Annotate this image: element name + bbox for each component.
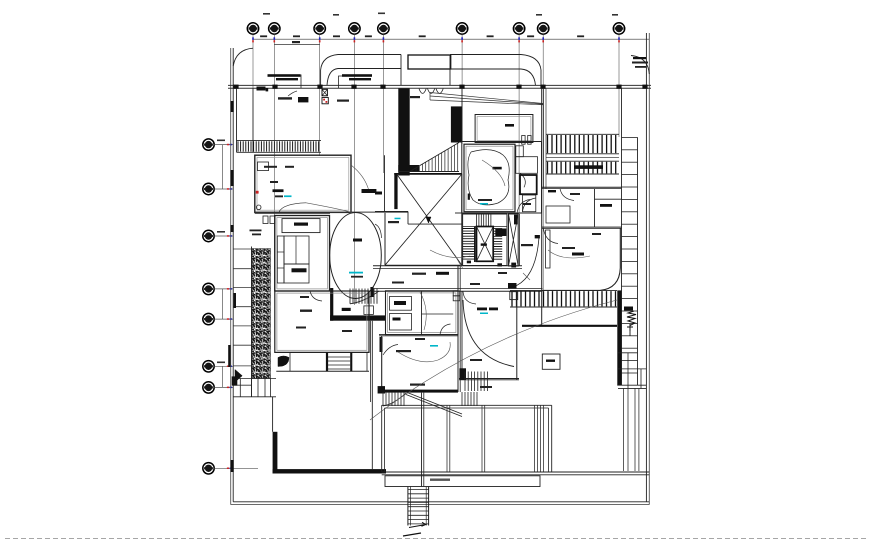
left boundary dark seg 1 — [231, 101, 234, 112]
grid line x=253.0 — [252, 34, 254, 152]
grid leader y=468.3 — [214, 467, 258, 469]
door arc bath — [560, 189, 574, 201]
tiny texts near left bubbles — [217, 140, 225, 142]
heater leader line — [300, 75, 302, 89]
grid bubble top 2 — [314, 23, 325, 34]
black dash wall — [370, 287, 373, 297]
stair rail curve — [350, 291, 379, 304]
dining room curved wall — [330, 213, 382, 299]
grid line x=274.3 — [273, 34, 275, 291]
bath top wall — [542, 186, 622, 188]
wire utility — [420, 292, 426, 330]
bath blob 2 — [600, 204, 612, 207]
label left of kitchen — [250, 230, 262, 232]
tall shaft box — [509, 214, 519, 266]
heater leader line 2 — [339, 76, 343, 88]
hall wall under living — [255, 211, 408, 213]
wall x=543 — [542, 88, 544, 188]
thick L-wall horizontal — [273, 469, 386, 473]
site boundary left outer — [230, 48, 232, 505]
stair ticks bed3 side — [465, 372, 487, 392]
bed3 bottom wall — [459, 378, 519, 380]
wall between blocks — [457, 266, 459, 392]
dimension text labels top — [260, 35, 267, 37]
stair arrow at section line — [403, 533, 421, 536]
storage inner wall line — [477, 117, 531, 141]
ramp direction lines — [430, 93, 543, 105]
site boundary right outer — [648, 33, 650, 505]
wire to stair — [455, 255, 463, 268]
big door arc corridor — [513, 237, 539, 287]
grid line x=619.0 — [618, 34, 620, 137]
label RA/WP-4 right — [410, 96, 420, 98]
wall x=542 — [541, 88, 543, 326]
bench band — [276, 351, 369, 353]
patio wall right inner — [369, 321, 371, 402]
bed2 top wall — [542, 226, 622, 228]
grid bubble top 6 — [613, 23, 624, 34]
tall shaft X — [509, 214, 519, 266]
bed2 label blob — [572, 253, 584, 256]
grid bubble top 1B — [269, 23, 280, 34]
corner arc top-right — [631, 56, 649, 75]
squiggle leader with blobs — [624, 307, 633, 311]
grid line x=354.4 — [353, 34, 355, 305]
great room walls — [275, 291, 369, 352]
thick L-wall vertical — [273, 432, 278, 474]
bath fixture box — [546, 206, 570, 223]
bed2 label — [562, 247, 575, 249]
corridor wall lower — [373, 288, 543, 290]
grid leader y=236.0 — [214, 235, 233, 237]
cyan label skylight — [395, 218, 401, 220]
patio wall right — [371, 321, 373, 469]
shaft dark top — [514, 215, 518, 225]
wall under utility — [379, 334, 458, 336]
skylight bottom edge — [385, 264, 462, 266]
grid line x=383.4 — [382, 34, 384, 173]
door arc hall left — [375, 224, 382, 238]
kitchen inner wall line — [277, 218, 328, 289]
box grid below stipple — [233, 378, 276, 380]
bath blob 1 — [548, 190, 556, 192]
label SD/SF-9 — [521, 244, 533, 246]
door jambs kitchen top — [263, 216, 268, 224]
grid bubble left AH — [203, 463, 214, 474]
grid line x=519.1 — [518, 34, 520, 214]
thick black wall cap — [398, 165, 419, 172]
site boundary right inner — [645, 33, 647, 502]
red device box — [322, 98, 328, 104]
band label — [430, 479, 450, 481]
tiny texts near top bubbles — [263, 13, 270, 15]
lower room label 2 — [410, 384, 425, 386]
utility blob B — [393, 318, 401, 321]
label SA/WP — [388, 221, 399, 223]
ladder band right edge — [637, 137, 639, 385]
bed1 wire loop — [468, 150, 509, 205]
storage label blob — [505, 124, 514, 127]
wire corner — [523, 273, 530, 280]
grid leader y=189.0 — [214, 188, 233, 190]
corridor wall upper — [373, 265, 522, 267]
black dashes hall — [362, 189, 377, 193]
mullion band right row1 — [546, 133, 619, 135]
grid bubble left AD — [203, 283, 214, 294]
grid line x=319.7 — [319, 34, 321, 156]
right side double verticals to deck — [623, 388, 625, 471]
dining cyan label — [349, 272, 363, 274]
utility blob A — [394, 301, 406, 305]
ladder band rungs — [622, 136, 638, 138]
skylight right edge — [461, 174, 463, 265]
shaft dark bottom — [511, 263, 516, 268]
kitchen stove blob — [292, 268, 307, 272]
utility room B — [390, 314, 412, 331]
bath label — [570, 193, 580, 195]
bed3 blob 2 — [489, 308, 498, 311]
planting strip rungs — [233, 248, 251, 250]
stair treads (curved stair) — [350, 289, 377, 304]
balcony mullion band — [510, 289, 617, 291]
living label 3 — [270, 181, 278, 183]
left dim connector lines — [222, 289, 224, 319]
heater note text top-left — [268, 74, 301, 77]
grid bubble top 5 — [538, 23, 549, 34]
grid bubble left AF — [203, 361, 214, 372]
grid leader y=387.4 — [214, 386, 233, 388]
bed3 corner box — [510, 292, 518, 300]
corridor label — [412, 273, 426, 275]
bed3 curved wall — [463, 300, 514, 367]
utility sq2 — [453, 296, 460, 301]
dining label blob — [353, 239, 362, 242]
dark bar in row2 — [574, 165, 603, 169]
mid line between rows — [546, 157, 619, 159]
ladder band left edge — [621, 88, 623, 385]
bed3 label — [470, 359, 482, 361]
kitchen counter blob — [294, 223, 308, 226]
bed1 label — [478, 199, 492, 201]
grid leader y=319.1 — [214, 318, 233, 320]
site boundary left inner — [232, 48, 234, 502]
wire bed1 — [482, 160, 505, 186]
planter blob — [546, 360, 555, 362]
door arc great room — [310, 291, 322, 301]
black dash near arc — [535, 235, 540, 238]
skylight lower-left edge — [384, 213, 386, 265]
deck stair ticks right — [462, 392, 477, 406]
grid leader y=366.3 — [214, 365, 233, 367]
top dimension line — [253, 38, 649, 40]
door arc bed3 — [463, 292, 476, 305]
site boundary bottom outer — [231, 504, 650, 506]
planter box right — [542, 354, 560, 369]
label RA/WP-4 left — [278, 97, 292, 99]
grid bubble top 4A — [513, 23, 524, 34]
left boundary dark seg 2 — [231, 170, 234, 186]
window marker box with X — [322, 89, 327, 96]
deck bottom band — [382, 471, 650, 473]
canopy band B — [450, 54, 521, 56]
lower band rect — [385, 476, 540, 487]
stair room thick walls — [330, 288, 333, 321]
elevator blob — [481, 243, 487, 245]
equipment black box — [298, 97, 308, 102]
stair rail dark — [474, 227, 476, 263]
stair dark mark bottom — [497, 263, 502, 266]
living cyan label — [284, 195, 292, 197]
label BA/WP left — [337, 100, 349, 102]
top-right corner label — [633, 57, 646, 59]
wall black segment B — [228, 345, 230, 367]
bench mid stair treads — [326, 352, 328, 371]
hall wall under living 2 — [255, 213, 330, 215]
deck outer rect — [382, 404, 552, 406]
grid bubble top 2A — [349, 23, 360, 34]
bed1 label blob — [493, 167, 502, 170]
black corner lower room — [378, 386, 385, 393]
wire curve right of living — [351, 165, 369, 191]
bath thick partition — [520, 175, 537, 194]
garage ramp hatch — [398, 171, 459, 173]
black dash wall 2 — [380, 337, 383, 352]
right side boxes — [618, 352, 638, 354]
wire corridor — [430, 250, 470, 258]
wire living-dining — [306, 203, 352, 213]
wall black segment A — [234, 293, 236, 308]
wire curve lower room — [398, 342, 450, 362]
deck crossing wall x=421.5 — [421, 393, 423, 487]
wall x=462 — [461, 88, 463, 141]
bed3 right wall — [516, 292, 518, 380]
stair dark mark left — [467, 261, 471, 264]
window band top-left (mullions) — [237, 140, 322, 142]
grid bubble top 1A — [247, 23, 258, 34]
lower room bottom thick wall — [379, 390, 458, 393]
door arc bed2 — [543, 228, 558, 243]
bed1 cyan label — [480, 203, 488, 205]
utility shelf — [422, 313, 454, 315]
stair dark mark top — [495, 229, 506, 237]
living door symbol circle — [256, 205, 261, 210]
stair top landing ticks — [477, 215, 491, 227]
bed3 blob 1 — [477, 308, 487, 311]
stipple hatch band — [252, 249, 271, 379]
top sub-dimension line — [274, 44, 319, 46]
deck stair rail left — [383, 393, 406, 406]
black post bottom-left — [232, 376, 238, 385]
main top wall inner — [228, 87, 651, 89]
grid bubble left AB — [203, 183, 214, 194]
living label 2 — [285, 166, 294, 168]
kitchen lower cab — [284, 264, 309, 283]
deck dividers — [446, 405, 448, 472]
bed1 bath column — [516, 146, 524, 157]
grid line x=543.2 — [542, 34, 544, 291]
great room label — [300, 310, 312, 312]
door arc lower room — [383, 345, 398, 356]
storage room walls — [475, 115, 533, 143]
door arc utility — [440, 324, 451, 335]
elevator shaft box — [477, 227, 494, 262]
center mark triangle — [426, 217, 431, 223]
grid bubble top 3 — [378, 23, 389, 34]
bed1 inner wall line — [466, 146, 513, 210]
black mark bed1 wall — [468, 194, 470, 200]
bed1 enclosure — [462, 142, 542, 214]
thick black wall bar East — [451, 106, 462, 142]
line right of bar — [617, 384, 646, 386]
grid bubble left AG — [203, 382, 214, 393]
living room inner wall line — [257, 157, 349, 210]
black blob corridor end — [508, 283, 517, 289]
section line bottom — [5, 537, 866, 539]
skylight left thick wall — [394, 173, 397, 209]
utility block walls — [386, 291, 459, 335]
main top wall outer — [228, 84, 651, 86]
corner arc top-left — [233, 48, 253, 66]
wire sweep big — [370, 300, 617, 420]
bed3 cyan label — [480, 313, 488, 315]
corridor blob — [436, 272, 449, 275]
great room inner wall line — [277, 293, 367, 350]
skylight top edge — [394, 173, 462, 175]
hall wall — [455, 212, 541, 214]
wall garage left — [236, 88, 238, 152]
heater note text 2 — [342, 74, 372, 77]
grid leader y=144.6 — [214, 144, 233, 146]
mullion band right row2 — [546, 160, 619, 162]
kitchen walls — [275, 216, 330, 292]
grid bubble left AE — [203, 313, 214, 324]
bed2 wardrobe strip — [546, 230, 551, 268]
wall x=384.5 upper — [384, 155, 386, 211]
stair core box — [463, 214, 507, 266]
canopy middle box — [408, 55, 451, 69]
grid leader y=288.9 — [214, 288, 233, 290]
wire curve living — [279, 203, 306, 212]
door arc hall — [517, 200, 530, 214]
utility inner wall line — [388, 293, 456, 333]
utility sq1 — [453, 291, 460, 296]
canopy band A — [338, 54, 401, 56]
bed2 curved wall — [542, 228, 620, 290]
wire bed2 — [548, 250, 590, 258]
bath partition h — [595, 198, 622, 200]
wall right of shaft — [519, 214, 521, 266]
wall garage mid — [252, 88, 254, 152]
red outlet dot living — [256, 191, 259, 194]
wall x=546 — [545, 88, 547, 188]
left boundary dark seg 4 — [231, 460, 234, 472]
bed3 left wall — [461, 292, 463, 380]
bed1 room walls — [464, 144, 515, 212]
bed3 black corner — [459, 368, 466, 380]
balcony thick line — [522, 325, 617, 327]
lower room left wall — [381, 336, 383, 392]
site boundary bottom inner — [233, 501, 649, 503]
stair label blob — [342, 308, 351, 311]
dining gray label — [351, 276, 363, 278]
door jambs top — [522, 136, 525, 145]
kitchen counter — [282, 219, 320, 233]
bath partition — [594, 189, 596, 228]
strip edge line — [251, 247, 253, 397]
thick black wall bar West — [398, 89, 409, 176]
bottom exit stairs — [407, 487, 409, 526]
sloped stringer — [406, 392, 462, 417]
black wall bar right — [617, 290, 621, 385]
grid bubble left AC — [203, 230, 214, 241]
wall post blobs on top wall — [233, 85, 238, 89]
bench sink blob — [278, 356, 289, 367]
kitchen tall cabinet — [277, 236, 284, 283]
skylight diagonals X — [385, 175, 461, 265]
grid bubble top 4 — [456, 23, 467, 34]
misc labels scattered — [392, 282, 404, 284]
stair treads right flight — [494, 229, 502, 260]
utility room A — [390, 297, 412, 311]
label leader curve — [288, 91, 297, 96]
lower room label 1 — [396, 350, 411, 352]
elevator X — [477, 227, 494, 262]
patio wall left — [272, 397, 274, 432]
dimension ticks left — [230, 144, 232, 146]
living window symbol — [258, 162, 269, 171]
stair treads left flight — [463, 229, 475, 260]
hall step walls — [375, 211, 408, 213]
living room walls — [255, 155, 351, 212]
stair arrow — [409, 522, 426, 527]
grid line x=462.1 — [461, 34, 463, 144]
black dash left of skylight — [375, 192, 382, 195]
living label 1 — [264, 166, 277, 168]
living equip blob — [273, 189, 284, 192]
left boundary dark seg 3 — [231, 225, 234, 232]
deck stair ticks left — [383, 392, 404, 406]
living label 4 — [275, 195, 283, 197]
scalloped door marks entry — [419, 89, 443, 94]
grid bubble left AA — [203, 139, 214, 150]
kitchen island — [284, 236, 309, 264]
utility divider — [421, 291, 423, 335]
dimension ticks top — [252, 37, 254, 40]
stair landing box — [364, 306, 374, 315]
arrow mark strip — [235, 370, 242, 383]
